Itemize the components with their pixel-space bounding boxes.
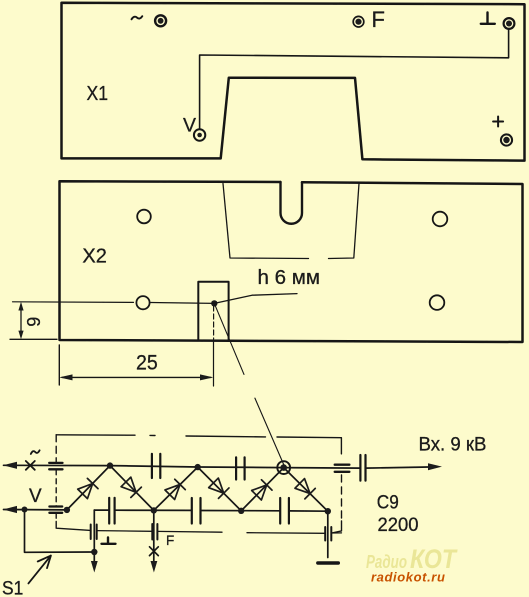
svg-text:2200: 2200 (378, 515, 419, 536)
svg-text:radiokot.ru: radiokot.ru (371, 570, 446, 585)
svg-text:9: 9 (24, 317, 44, 327)
svg-text:C9: C9 (377, 493, 399, 514)
svg-text:V: V (29, 486, 42, 507)
svg-text:S1: S1 (2, 579, 23, 597)
svg-text:Вх. 9 кВ: Вх. 9 кВ (419, 434, 487, 456)
svg-text:X2: X2 (82, 245, 107, 268)
svg-text:25: 25 (136, 351, 158, 375)
svg-text:X1: X1 (87, 83, 109, 105)
svg-text:V: V (183, 115, 196, 137)
svg-text:h 6 мм: h 6 мм (258, 267, 321, 289)
svg-text:F: F (166, 533, 174, 548)
svg-text:F: F (372, 7, 385, 32)
